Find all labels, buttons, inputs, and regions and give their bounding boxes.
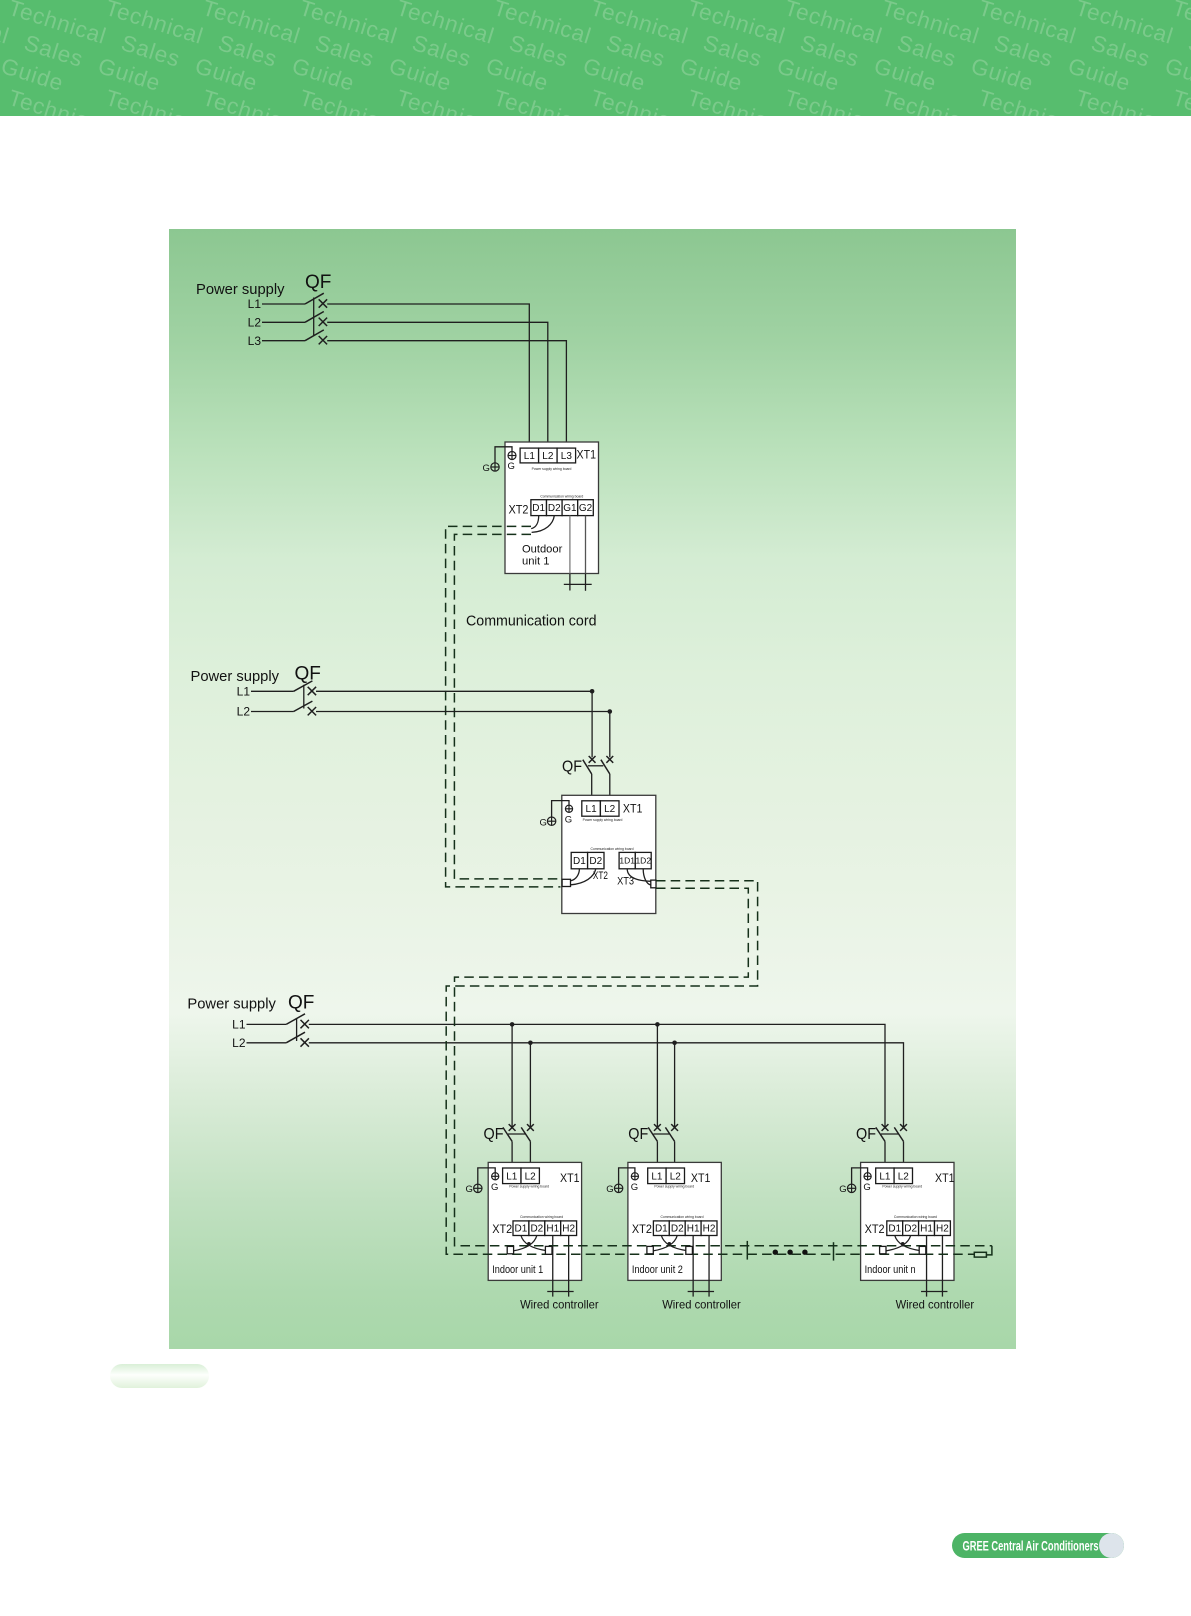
svg-text:D2: D2: [904, 1224, 917, 1235]
terminating link at end of communication bus: [986, 1246, 992, 1255]
terminal L2 (outdoor XT1): [539, 448, 558, 463]
svg-text:Wired controller: Wired controller: [896, 1298, 975, 1312]
wire L2 from unit breaker into middle unit: [609, 774, 611, 801]
bus wire L2 (indoor supply): [309, 1043, 904, 1127]
terminal D2 (indoor unit 1): [529, 1221, 545, 1236]
svg-text:L2: L2: [525, 1171, 537, 1182]
svg-text:L1: L1: [248, 297, 262, 311]
svg-text:Indoor unit 2: Indoor unit 2: [632, 1264, 683, 1276]
breaker contact mark L1 (indoor unit 2 QF): [654, 1124, 661, 1131]
svg-text:L1: L1: [651, 1171, 663, 1182]
header band: [0, 0, 1191, 116]
wire L1 to breaker (indoor supply): [247, 1023, 287, 1025]
svg-text:unit 1: unit 1: [522, 556, 550, 568]
svg-text:L3: L3: [561, 451, 573, 462]
svg-text:QF: QF: [628, 1126, 648, 1143]
wire L2 from breaker to outdoor unit terminal: [327, 322, 548, 448]
junction dot on crossing wires (indoor unit 1): [527, 1242, 531, 1246]
svg-text:L2: L2: [248, 316, 262, 330]
wire L2 to breaker (indoor supply): [247, 1042, 287, 1044]
ground wire to indoor unit 1: [478, 1168, 495, 1184]
breaker linkage bar (indoor unit 1 QF): [508, 1133, 526, 1135]
breaker blade L1 (indoor unit n QF): [876, 1127, 885, 1141]
ground symbol outside indoor unit 1: [474, 1184, 482, 1192]
footer logo pill: [952, 1533, 1124, 1558]
svg-text:H2: H2: [703, 1224, 716, 1235]
wire from D1 to right connector (indoor unit 1): [521, 1236, 546, 1251]
svg-text:Indoor unit 1: Indoor unit 1: [492, 1264, 543, 1276]
svg-text:XT2: XT2: [865, 1224, 885, 1236]
svg-text:G2: G2: [579, 503, 593, 514]
communication cord outer dashed run (outdoor D1 to XT2): [446, 526, 561, 887]
breaker blade L2 (middle unit QF): [601, 760, 610, 774]
svg-text:G: G: [466, 1184, 473, 1195]
wire from 1D2 to right connector (middle): [643, 869, 651, 885]
svg-text:Communication cord: Communication cord: [466, 614, 597, 630]
wire from G2 down (below box): [585, 574, 587, 591]
svg-text:Communication wiring board: Communication wiring board: [661, 1215, 704, 1219]
svg-text:L1: L1: [879, 1171, 891, 1182]
right connector (indoor unit 1): [545, 1246, 552, 1254]
bus break tick 1: [746, 1241, 748, 1260]
svg-text:Outdoor: Outdoor: [522, 544, 563, 556]
left connector (indoor unit 2): [647, 1246, 653, 1253]
indoor unit n box: [861, 1162, 954, 1280]
crossbar on wired controller wires (indoor unit 2): [688, 1291, 714, 1293]
svg-text:G: G: [606, 1184, 613, 1195]
wire L3 from label to breaker: [262, 340, 305, 342]
breaker blade L1 (indoor unit 2 QF): [648, 1127, 657, 1141]
wire L3 from breaker to outdoor unit terminal: [327, 341, 566, 448]
svg-text:L2: L2: [542, 451, 554, 462]
svg-text:D2: D2: [548, 503, 561, 514]
breaker contact mark L2 (middle supply QF): [308, 707, 316, 715]
junction dot L2 for indoor unit 2: [672, 1041, 677, 1046]
junction dot L2 (middle): [608, 709, 613, 714]
svg-text:L1: L1: [237, 685, 251, 699]
breaker contact mark L1 (indoor unit n QF): [882, 1124, 889, 1131]
terminal L1 (indoor unit n): [876, 1168, 894, 1184]
wire L2 from breaker into indoor unit 1: [529, 1141, 531, 1168]
breaker blade L1 (middle unit QF): [583, 760, 592, 774]
terminal L2 (indoor unit 1): [521, 1168, 539, 1184]
ground terminal symbol inside indoor unit n: [864, 1173, 871, 1180]
breaker QF pole blade L2: [305, 312, 324, 323]
wire L2 drop to indoor unit 2 breaker: [674, 1043, 676, 1127]
wire L2 from breaker into indoor unit 2: [674, 1141, 676, 1168]
wire L1 from breaker into indoor unit 1: [511, 1141, 513, 1168]
ground wire to indoor unit n: [852, 1168, 868, 1184]
ground symbol outside middle unit: [547, 817, 555, 825]
left connector (indoor unit 1): [507, 1246, 513, 1253]
wire L1 from breaker to drop point (middle): [316, 690, 592, 692]
wire from 1D1 to right connector (middle): [627, 869, 651, 882]
footer circle: [1099, 1533, 1124, 1558]
ground wire to middle unit: [552, 801, 569, 817]
svg-text:QF: QF: [856, 1126, 876, 1143]
svg-text:L2: L2: [237, 705, 251, 719]
middle unit box: [562, 795, 656, 913]
breaker contact mark L2 (indoor supply QF): [301, 1038, 309, 1046]
breaker contact mark L2 (indoor unit 1 QF): [527, 1124, 534, 1131]
wire L2 from breaker into indoor unit n: [903, 1141, 905, 1168]
wire H1 to wired controller (indoor unit 2): [692, 1236, 694, 1297]
svg-text:H1: H1: [920, 1224, 933, 1235]
breaker linkage bar (middle unit QF): [588, 765, 603, 767]
svg-text:G1: G1: [563, 503, 577, 514]
svg-text:Communication wiring board: Communication wiring board: [520, 1215, 563, 1219]
breaker contact mark L1 (middle supply QF): [308, 687, 316, 695]
svg-text:XT1: XT1: [560, 1173, 580, 1185]
bus break tick 2: [833, 1242, 835, 1260]
svg-text:Power supply wiring board: Power supply wiring board: [509, 1185, 549, 1189]
wire from D2 to left connector (indoor unit n): [886, 1236, 911, 1251]
svg-text:Communication wiring board: Communication wiring board: [540, 495, 583, 499]
breaker blade L2 (indoor supply QF): [286, 1032, 305, 1043]
breaker blade L1 (indoor unit 1 QF): [503, 1127, 512, 1141]
svg-text:D1: D1: [573, 856, 586, 867]
breaker linkage bar (indoor unit n QF): [881, 1133, 899, 1135]
svg-text:H2: H2: [562, 1224, 575, 1235]
outdoor unit 1 box: [505, 442, 599, 574]
ellipsis dots on bus: [773, 1250, 808, 1255]
wire L1 from label to breaker: [262, 303, 305, 305]
wire from G2 down (inside box): [585, 516, 587, 574]
terminal D1 (indoor unit 2): [653, 1221, 669, 1236]
breaker contact mark L2 (indoor unit 2 QF): [671, 1124, 678, 1131]
breaker blade L2 (indoor unit 1 QF): [521, 1127, 530, 1141]
indoor unit 2 box: [628, 1162, 721, 1280]
wire H1 to wired controller (indoor unit 1): [552, 1236, 554, 1297]
breaker contact mark L1 (middle unit QF): [589, 756, 596, 763]
svg-text:Power supply wiring board: Power supply wiring board: [882, 1185, 922, 1189]
svg-text:XT2: XT2: [492, 1224, 512, 1236]
svg-text:H2: H2: [936, 1224, 949, 1235]
terminal D1 (outdoor XT2): [531, 500, 547, 516]
wire L1 from unit breaker into middle unit: [591, 774, 593, 801]
breaker blade L2 (middle supply QF): [294, 701, 313, 711]
wire from D2 to left connector (middle): [571, 869, 596, 885]
svg-text:L2: L2: [604, 804, 616, 815]
svg-text:Wired controller: Wired controller: [520, 1298, 599, 1312]
svg-text:1D2: 1D2: [635, 856, 651, 866]
breaker blade L1 (middle supply QF): [294, 681, 313, 691]
terminal L1 (outdoor XT1): [520, 448, 539, 463]
terminal D2 (indoor unit n): [903, 1221, 919, 1236]
terminal 1D2 (middle XT3): [635, 852, 651, 868]
terminal H1 (indoor unit 2): [685, 1221, 701, 1236]
terminal H2 (indoor unit 1): [561, 1221, 577, 1236]
svg-text:Power supply wiring board: Power supply wiring board: [583, 818, 623, 822]
breaker linkage bar (indoor supply QF): [296, 1018, 298, 1041]
terminal D1 (indoor unit n): [887, 1221, 903, 1236]
svg-text:D2: D2: [530, 1224, 543, 1235]
wire L2 to breaker (middle): [251, 711, 294, 713]
svg-text:L1: L1: [506, 1171, 518, 1182]
breaker QF contact mark L1: [319, 299, 327, 307]
svg-text:XT1: XT1: [691, 1173, 711, 1185]
breaker blade L2 (indoor unit 2 QF): [665, 1127, 674, 1141]
terminal D1 (middle XT2): [571, 852, 587, 868]
ground symbol outside indoor unit n: [847, 1184, 855, 1192]
breaker contact mark L2 (middle unit QF): [606, 756, 613, 763]
svg-text:QF: QF: [288, 993, 314, 1014]
wire H1 to wired controller (indoor unit n): [926, 1236, 928, 1297]
svg-text:Power supply: Power supply: [187, 996, 276, 1013]
breaker blade L1 (indoor supply QF): [286, 1014, 305, 1025]
wire from D1 to right connector (indoor unit 2): [661, 1236, 686, 1251]
svg-text:D1: D1: [532, 503, 545, 514]
breaker QF pole blade L3: [305, 330, 324, 341]
terminal L3 (outdoor XT1): [557, 448, 576, 463]
right connector (indoor unit 2): [686, 1246, 693, 1254]
svg-text:L1: L1: [232, 1018, 246, 1032]
svg-text:XT1: XT1: [577, 450, 597, 462]
terminal L1 (indoor unit 2): [648, 1168, 666, 1184]
svg-text:G: G: [508, 461, 515, 472]
crossbar on wired controller wires (indoor unit 1): [547, 1291, 573, 1293]
wire from G1 down (below box): [569, 574, 571, 591]
crossbar on wired controller wires (indoor unit n): [921, 1291, 947, 1293]
svg-text:D1: D1: [888, 1224, 901, 1235]
communication cord inner dashed run (outdoor D2 to XT2): [454, 534, 561, 879]
communication cord inner dashed run (XT3 1D2 to indoor bus lower): [455, 888, 992, 1246]
right connector (indoor unit n): [919, 1246, 926, 1254]
wire H2 to wired controller (indoor unit n): [941, 1236, 943, 1297]
svg-text:L1: L1: [524, 451, 536, 462]
diagram panel background: [169, 229, 1016, 1349]
left connector (indoor unit n): [880, 1246, 886, 1253]
wire L2 drop to indoor unit 1 breaker: [529, 1043, 531, 1127]
breaker QF pole blade L1: [305, 293, 324, 304]
svg-text:Power supply: Power supply: [191, 668, 280, 685]
terminal D2 (outdoor XT2): [547, 500, 563, 516]
wire L1 from breaker into indoor unit 2: [656, 1141, 658, 1168]
svg-text:L2: L2: [232, 1036, 246, 1050]
svg-text:H1: H1: [687, 1224, 700, 1235]
terminal D2 (indoor unit 2): [669, 1221, 685, 1236]
breaker contact mark L2 (indoor unit n QF): [900, 1124, 907, 1131]
wire L1 drop to indoor unit 1 breaker: [511, 1024, 513, 1126]
wire from D1 to right connector (indoor unit n): [895, 1236, 920, 1251]
terminal D2 (middle XT2): [588, 852, 604, 868]
svg-text:Power supply wiring board: Power supply wiring board: [654, 1185, 694, 1189]
wire H2 to wired controller (indoor unit 1): [568, 1236, 570, 1297]
svg-text:G: G: [631, 1182, 638, 1193]
terminal H2 (indoor unit n): [935, 1221, 951, 1236]
terminal 1D1 (middle XT3): [619, 852, 635, 868]
right connector (middle unit): [651, 880, 656, 888]
svg-text:D2: D2: [671, 1224, 684, 1235]
svg-text:L2: L2: [670, 1171, 682, 1182]
communication cord outer dashed run (XT3 1D1 to indoor bus upper): [446, 881, 974, 1255]
svg-text:QF: QF: [562, 759, 582, 776]
terminal G2 (outdoor XT2): [578, 500, 594, 516]
breaker contact mark L1 (indoor unit 1 QF): [509, 1124, 516, 1131]
ground wire to outdoor unit: [495, 447, 512, 463]
svg-text:XT1: XT1: [623, 804, 643, 816]
wire from D2 to communication cord: [532, 516, 555, 533]
decorative light pill: [110, 1364, 209, 1388]
indoor unit 1 box: [488, 1162, 581, 1280]
junction dot on crossing wires (indoor unit n): [901, 1242, 905, 1246]
svg-text:XT2: XT2: [632, 1224, 652, 1236]
svg-text:D1: D1: [655, 1224, 668, 1235]
wire L1 to breaker (middle): [251, 690, 294, 692]
breaker linkage bar (indoor unit 2 QF): [653, 1133, 670, 1135]
breaker linkage bar (middle supply QF): [303, 685, 305, 709]
svg-text:Power supply wiring board: Power supply wiring board: [532, 467, 572, 471]
terminal L1 (indoor unit 1): [503, 1168, 521, 1184]
svg-text:L3: L3: [248, 334, 262, 348]
wire L2 drop to unit breaker (middle): [609, 712, 611, 758]
ground terminal symbol inside indoor unit 1: [492, 1173, 499, 1180]
terminal D1 (indoor unit 1): [513, 1221, 529, 1236]
svg-text:H1: H1: [546, 1224, 559, 1235]
breaker QF contact mark L3: [319, 336, 327, 344]
svg-text:G: G: [540, 817, 547, 828]
svg-text:D2: D2: [589, 856, 602, 867]
svg-text:Wired controller: Wired controller: [662, 1298, 741, 1312]
ground terminal symbol inside outdoor unit: [508, 452, 516, 460]
terminal L1 (middle XT1): [582, 801, 601, 816]
ground terminal symbol inside middle unit: [565, 805, 572, 812]
terminal L2 (indoor unit 2): [666, 1168, 684, 1184]
svg-text:G: G: [483, 463, 490, 474]
svg-text:L1: L1: [586, 804, 598, 815]
wire L1 drop to indoor unit 2 breaker: [656, 1024, 658, 1126]
breaker QF contact mark L2: [319, 318, 327, 326]
terminating resistor on communication bus: [974, 1252, 986, 1257]
wire H2 to wired controller (indoor unit 2): [708, 1236, 710, 1297]
ground symbol outside outdoor unit: [491, 463, 499, 471]
wire from D2 to left connector (indoor unit 2): [653, 1236, 677, 1251]
breaker contact mark L1 (indoor supply QF): [301, 1020, 309, 1028]
wire L2 from label to breaker: [262, 321, 305, 323]
bus wire L1 (indoor supply): [309, 1024, 885, 1126]
crossbar on G1/G2 wires: [564, 583, 592, 585]
wire L1 drop to unit breaker (middle): [591, 691, 593, 757]
svg-text:XT2: XT2: [509, 505, 529, 517]
breaker QF linkage bar: [313, 298, 315, 337]
svg-text:GREE Central Air Conditioners: GREE Central Air Conditioners: [963, 1539, 1099, 1554]
junction dot on crossing wires (indoor unit 2): [667, 1242, 671, 1246]
wire from G1 down (inside box): [569, 516, 571, 574]
svg-text:D1: D1: [515, 1224, 528, 1235]
svg-text:Communication wiring board: Communication wiring board: [591, 847, 634, 851]
wire from D1 to communication cord: [531, 516, 539, 529]
svg-text:Power supply: Power supply: [196, 281, 285, 298]
wire L1 from breaker into indoor unit n: [884, 1141, 886, 1168]
wire from D2 to left connector (indoor unit 1): [513, 1236, 537, 1251]
svg-text:QF: QF: [484, 1126, 504, 1143]
terminal L2 (indoor unit n): [894, 1168, 912, 1184]
wire from D1 to left connector (middle): [571, 869, 580, 881]
breaker blade L2 (indoor unit n QF): [894, 1127, 903, 1141]
svg-text:QF: QF: [295, 664, 321, 685]
svg-text:G: G: [491, 1182, 498, 1193]
wire L1 from breaker to outdoor unit terminal: [327, 304, 529, 448]
svg-text:QF: QF: [305, 272, 331, 293]
junction dot L1 (middle): [590, 689, 595, 694]
svg-text:1D1: 1D1: [619, 856, 635, 866]
terminal H1 (indoor unit n): [919, 1221, 935, 1236]
junction dot L2 for indoor unit 1: [528, 1041, 533, 1046]
terminal L2 (middle XT1): [600, 801, 619, 816]
svg-text:G: G: [839, 1184, 846, 1195]
svg-text:L2: L2: [898, 1171, 910, 1182]
terminal H1 (indoor unit 1): [545, 1221, 561, 1236]
terminal H2 (indoor unit 2): [701, 1221, 717, 1236]
wire L2 from breaker to drop point (middle): [316, 711, 610, 713]
ground terminal symbol inside indoor unit 2: [631, 1173, 638, 1180]
svg-text:XT1: XT1: [935, 1173, 955, 1185]
svg-text:G: G: [565, 814, 572, 825]
ground wire to indoor unit 2: [619, 1168, 635, 1184]
svg-text:Indoor unit n: Indoor unit n: [865, 1264, 916, 1276]
ground symbol outside indoor unit 2: [614, 1184, 622, 1192]
svg-text:Communication wiring board: Communication wiring board: [894, 1215, 937, 1219]
junction dot L1 for indoor unit 1: [510, 1022, 515, 1027]
terminal G1 (outdoor XT2): [562, 500, 578, 516]
left connector (middle unit): [562, 879, 570, 886]
svg-text:G: G: [863, 1182, 870, 1193]
junction dot L1 for indoor unit 2: [655, 1022, 660, 1027]
